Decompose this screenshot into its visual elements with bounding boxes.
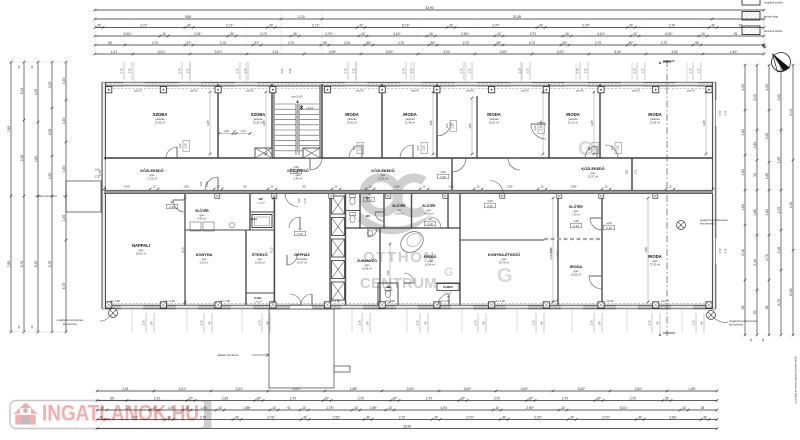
crossed boxes flanking stair <box>255 148 272 158</box>
svg-text:2,90⁵: 2,90⁵ <box>461 32 469 36</box>
svg-text:10: 10 <box>477 185 480 189</box>
wall pillars top <box>106 87 112 93</box>
svg-text:1,80: 1,80 <box>753 142 757 149</box>
svg-text:pm|75: pm|75 <box>632 88 640 92</box>
wc toilets <box>350 197 355 204</box>
svg-text:2,70: 2,70 <box>719 248 722 253</box>
svg-text:10: 10 <box>162 32 166 36</box>
svg-text:1,40: 1,40 <box>223 129 229 133</box>
svg-text:pm|75: pm|75 <box>134 88 142 92</box>
svg-text:pm|75: pm|75 <box>687 88 695 92</box>
svg-text:WC: WC <box>259 197 264 201</box>
svg-text:7,65: 7,65 <box>7 126 11 133</box>
right wall windows <box>712 100 716 126</box>
logo gray bar <box>204 401 212 429</box>
svg-text:4,03⁵: 4,03⁵ <box>124 185 130 189</box>
ingatlanok.hu logo box <box>10 401 206 429</box>
svg-text:2,70: 2,70 <box>154 396 161 400</box>
svg-text:3,00⁵: 3,00⁵ <box>521 387 529 391</box>
svg-text:4,30: 4,30 <box>765 84 769 91</box>
svg-text:3,01⁵: 3,01⁵ <box>179 387 187 391</box>
svg-text:6,75: 6,75 <box>777 299 781 306</box>
doors small rooms <box>289 217 300 228</box>
svg-text:10: 10 <box>565 32 569 36</box>
svg-text:30: 30 <box>711 23 715 27</box>
svg-text:1,00: 1,00 <box>487 199 493 203</box>
svg-text:30⁵: 30⁵ <box>431 41 437 45</box>
svg-text:fém kémény: fém kémény <box>729 323 744 327</box>
svg-text:pm 1,60: pm 1,60 <box>385 299 395 303</box>
svg-text:30: 30 <box>629 23 633 27</box>
svg-text:G: G <box>578 138 594 160</box>
svg-text:2,70: 2,70 <box>200 320 204 326</box>
svg-text:22,62 m²: 22,62 m² <box>489 121 499 125</box>
svg-text:30: 30 <box>638 415 642 419</box>
svg-text:2,70: 2,70 <box>258 320 262 326</box>
svg-text:2,70: 2,70 <box>426 396 433 400</box>
svg-text:30: 30 <box>230 32 234 36</box>
svg-text:2,70⁵: 2,70⁵ <box>582 23 590 27</box>
svg-text:ELŐTÉR: ELŐTÉR <box>569 204 583 209</box>
svg-text:1,75: 1,75 <box>352 68 356 74</box>
svg-text:37,53 m²: 37,53 m² <box>650 263 660 267</box>
svg-text:2,16: 2,16 <box>753 259 757 266</box>
svg-text:10: 10 <box>185 406 189 410</box>
svg-text:2,75⁵: 2,75⁵ <box>267 415 275 419</box>
svg-text:3,85: 3,85 <box>262 120 266 126</box>
wall partitions top band <box>217 84 219 158</box>
svg-text:22,95 m²: 22,95 m² <box>155 121 165 125</box>
svg-text:3,85: 3,85 <box>702 120 706 126</box>
svg-text:4,30: 4,30 <box>741 84 745 91</box>
sinks <box>229 222 234 227</box>
entrance double door bottom <box>290 305 312 309</box>
svg-text:1,80: 1,80 <box>62 118 66 125</box>
svg-text:WC: WC <box>387 285 392 289</box>
svg-text:2,10: 2,10 <box>185 143 188 148</box>
svg-text:1,38 m²: 1,38 m² <box>385 290 393 293</box>
svg-text:30: 30 <box>303 415 307 419</box>
svg-text:2,20: 2,20 <box>344 41 351 45</box>
svg-text:INGATLANOK.HU: INGATLANOK.HU <box>42 401 199 426</box>
svg-text:ÉTKEZŐ: ÉTKEZŐ <box>252 252 267 257</box>
svg-text:2,70: 2,70 <box>463 41 470 45</box>
svg-text:25: 25 <box>701 406 705 410</box>
svg-text:pm|75: pm|75 <box>551 299 559 303</box>
svg-text:FÜRDŐ: FÜRDŐ <box>424 254 437 259</box>
svg-text:2,70: 2,70 <box>358 320 362 326</box>
doors corridor/lower <box>173 200 185 212</box>
svg-text:2,70: 2,70 <box>494 396 501 400</box>
svg-text:KAM.: KAM. <box>254 296 261 300</box>
svg-text:6,01¹: 6,01¹ <box>620 406 628 410</box>
svg-text:55⁵: 55⁵ <box>367 41 373 45</box>
svg-text:2,70: 2,70 <box>557 251 560 256</box>
svg-text:SZOBA: SZOBA <box>251 112 266 117</box>
svg-text:KÖZLEKEDŐ: KÖZLEKEDŐ <box>140 168 163 173</box>
corridor divider wall <box>451 158 453 190</box>
svg-text:2,10: 2,10 <box>452 123 455 128</box>
svg-text:2,79: 2,79 <box>460 68 464 74</box>
svg-text:2,70: 2,70 <box>474 320 478 326</box>
svg-text:2,70: 2,70 <box>777 207 781 214</box>
svg-text:1,36 m²: 1,36 m² <box>254 301 262 304</box>
svg-text:pm|80: pm|80 <box>100 169 102 176</box>
corridor wall dim row <box>103 188 106 191</box>
svg-text:2,70: 2,70 <box>200 415 207 419</box>
svg-text:12,65: 12,65 <box>789 288 793 296</box>
interior room dims <box>209 92 211 154</box>
svg-text:1,00: 1,00 <box>293 165 299 169</box>
svg-text:1,75: 1,75 <box>584 68 588 74</box>
svg-text:1,80: 1,80 <box>765 173 769 180</box>
svg-text:10: 10 <box>271 185 274 189</box>
corridor top wall <box>104 157 713 159</box>
svg-text:1,00: 1,00 <box>606 221 612 225</box>
svg-text:30⁵: 30⁵ <box>629 41 635 45</box>
svg-text:1,90⁵: 1,90⁵ <box>688 387 696 391</box>
svg-text:1,00: 1,00 <box>417 145 420 150</box>
svg-text:1,90⁵: 1,90⁵ <box>730 50 738 54</box>
svg-text:IRODA: IRODA <box>570 265 582 269</box>
svg-text:30⁵: 30⁵ <box>497 41 503 45</box>
svg-text:55: 55 <box>108 41 112 45</box>
svg-text:10,42 m²: 10,42 m² <box>347 121 357 125</box>
svg-text:4,35 m²: 4,35 m² <box>425 212 434 216</box>
washer boxes <box>190 222 201 231</box>
svg-text:10: 10 <box>423 185 426 189</box>
svg-text:22,95 m²: 22,95 m² <box>650 121 660 125</box>
svg-text:1,50 m²: 1,50 m² <box>257 202 265 205</box>
top dimension rows <box>95 9 764 11</box>
section line A-A <box>666 60 668 336</box>
svg-text:a szolgál tervieket egyedi kez: a szolgál tervieket egyedi kezelendőek <box>794 355 798 403</box>
svg-text:10,04 m²: 10,04 m² <box>425 263 435 267</box>
svg-text:30,79 m²: 30,79 m² <box>499 261 509 265</box>
svg-text:2,10: 2,10 <box>440 175 446 179</box>
svg-text:33,90: 33,90 <box>403 424 411 428</box>
svg-text:2,70: 2,70 <box>399 415 406 419</box>
svg-text:2,70: 2,70 <box>590 320 594 326</box>
svg-text:2,10: 2,10 <box>573 224 579 228</box>
svg-text:2,71⁵: 2,71⁵ <box>131 415 139 419</box>
svg-text:5,70: 5,70 <box>48 261 52 268</box>
svg-text:3,03 m²: 3,03 m² <box>395 212 404 216</box>
svg-text:3,01⁵: 3,01⁵ <box>236 387 244 391</box>
svg-text:2,71⁵: 2,71⁵ <box>226 23 234 27</box>
svg-text:1,41 m²: 1,41 m² <box>444 292 452 295</box>
svg-text:10: 10 <box>633 32 637 36</box>
svg-text:2,79: 2,79 <box>236 68 240 74</box>
svg-text:3,85: 3,85 <box>539 120 543 126</box>
svg-text:3,00⁵: 3,00⁵ <box>578 387 586 391</box>
svg-text:17,25 m²: 17,25 m² <box>147 177 157 181</box>
svg-text:2,20: 2,20 <box>298 15 305 19</box>
svg-text:ZUH.: ZUH. <box>251 217 258 221</box>
svg-text:37⁵: 37⁵ <box>255 41 261 45</box>
svg-text:11,13 m²: 11,13 m² <box>568 121 578 125</box>
svg-text:fém kémény: fém kémény <box>63 322 78 326</box>
svg-text:1,00: 1,00 <box>440 170 446 174</box>
svg-text:3,01⁵: 3,01⁵ <box>215 50 223 54</box>
svg-text:3,00⁵: 3,00⁵ <box>464 387 472 391</box>
building outer wall left <box>102 82 105 308</box>
svg-text:6,75: 6,75 <box>62 283 66 290</box>
svg-text:3,01: 3,01 <box>272 50 279 54</box>
svg-text:30: 30 <box>434 415 438 419</box>
svg-text:30⁵: 30⁵ <box>461 396 467 400</box>
svg-text:7,65: 7,65 <box>7 261 11 268</box>
svg-text:3,00⁵: 3,00⁵ <box>500 50 508 54</box>
svg-text:5,10: 5,10 <box>20 88 24 95</box>
svg-text:2,70: 2,70 <box>669 23 676 27</box>
svg-text:90: 90 <box>298 227 302 231</box>
shaft crossed boxes <box>332 196 345 214</box>
svg-text:pm|75: pm|75 <box>661 299 669 303</box>
svg-text:3,00⁵: 3,00⁵ <box>407 387 415 391</box>
legend box 3 tervezett terulet <box>742 26 760 35</box>
svg-text:10: 10 <box>669 185 672 189</box>
svg-text:pm|75: pm|75 <box>190 88 198 92</box>
svg-text:10: 10 <box>388 406 392 410</box>
svg-text:1,00: 1,00 <box>534 125 537 130</box>
svg-text:pm 1,60: pm 1,60 <box>440 299 450 303</box>
left wall window <box>102 160 106 186</box>
svg-text:4,30: 4,30 <box>753 94 757 101</box>
svg-text:6,01⁵: 6,01⁵ <box>665 32 673 36</box>
svg-text:KAMRA: KAMRA <box>443 285 453 289</box>
svg-text:1,77: 1,77 <box>125 406 132 410</box>
svg-text:IRODA: IRODA <box>487 112 501 117</box>
svg-text:1,00+0,85: 1,00+0,85 <box>550 248 553 260</box>
svg-text:előtető szerkezet: előtető szerkezet <box>217 353 238 357</box>
svg-text:4,93: 4,93 <box>448 185 454 189</box>
svg-text:30: 30 <box>703 415 707 419</box>
svg-text:SZOBA: SZOBA <box>153 112 168 117</box>
svg-text:pm|75: pm|75 <box>246 88 254 92</box>
svg-text:1,08⁵: 1,08⁵ <box>369 406 377 410</box>
svg-text:10,55 m²: 10,55 m² <box>571 273 581 277</box>
svg-text:GÉPHÁZ: GÉPHÁZ <box>294 252 311 257</box>
svg-text:3,00⁵: 3,00⁵ <box>635 387 643 391</box>
svg-text:pm 0,00: pm 0,00 <box>292 95 303 99</box>
bathtub <box>397 227 428 256</box>
svg-text:KÖZLEKEDŐ: KÖZLEKEDŐ <box>581 166 604 171</box>
svg-text:37⁵: 37⁵ <box>187 41 193 45</box>
svg-text:2,70: 2,70 <box>648 320 652 326</box>
svg-text:2,90⁵: 2,90⁵ <box>526 406 534 410</box>
svg-text:2,10: 2,10 <box>487 204 493 208</box>
svg-text:2,69: 2,69 <box>222 396 229 400</box>
svg-text:55: 55 <box>695 41 699 45</box>
svg-text:2,70: 2,70 <box>358 396 365 400</box>
window dims above wall <box>123 62 125 80</box>
svg-text:2,10: 2,10 <box>359 145 362 150</box>
svg-text:10: 10 <box>152 406 156 410</box>
svg-text:G: G <box>444 265 453 279</box>
svg-text:4,30: 4,30 <box>34 89 38 96</box>
svg-text:14,46 m²: 14,46 m² <box>362 267 372 271</box>
svg-text:6,02⁵: 6,02⁵ <box>124 32 132 36</box>
svg-text:90: 90 <box>428 217 432 221</box>
svg-text:4,30 m²: 4,30 m² <box>198 217 207 221</box>
svg-text:3,00⁵: 3,00⁵ <box>386 50 394 54</box>
svg-text:10: 10 <box>369 185 372 189</box>
svg-text:2,70⁵: 2,70⁵ <box>466 415 474 419</box>
svg-text:10: 10 <box>153 185 156 189</box>
svg-text:1,75: 1,75 <box>468 68 472 74</box>
svg-text:1,75: 1,75 <box>410 68 414 74</box>
svg-text:2,70: 2,70 <box>692 320 696 326</box>
svg-text:33,90: 33,90 <box>425 6 433 10</box>
planned wall dashed <box>544 238 602 240</box>
svg-text:fém kémény: fém kémény <box>700 222 715 226</box>
svg-text:2,70: 2,70 <box>220 41 227 45</box>
svg-text:2,70: 2,70 <box>630 396 637 400</box>
svg-text:1,75: 1,75 <box>725 248 728 253</box>
svg-text:1,80: 1,80 <box>765 209 769 216</box>
svg-text:30⁵: 30⁵ <box>257 396 263 400</box>
svg-text:meglévő konzolómentes: meglévő konzolómentes <box>729 319 758 323</box>
svg-text:2,79: 2,79 <box>178 68 182 74</box>
svg-text:37⁵: 37⁵ <box>189 396 195 400</box>
svg-text:30: 30 <box>167 415 171 419</box>
svg-text:3,02⁵: 3,02⁵ <box>557 50 565 54</box>
svg-text:30: 30 <box>235 415 239 419</box>
svg-text:3,10⁵: 3,10⁵ <box>393 32 401 36</box>
svg-text:2,10: 2,10 <box>169 205 175 209</box>
svg-text:3,01⁵: 3,01⁵ <box>293 387 301 391</box>
building outer wall bottom <box>102 305 716 309</box>
svg-text:1,60: 1,60 <box>741 169 745 176</box>
svg-text:2,79: 2,79 <box>344 68 348 74</box>
svg-text:G: G <box>497 265 513 287</box>
svg-text:30: 30 <box>449 23 453 27</box>
corridor wall pillars <box>215 194 220 199</box>
svg-text:3,00: 3,00 <box>671 50 678 54</box>
svg-text:előtető szerkezet: előtető szerkezet <box>35 194 56 198</box>
staircase <box>274 86 320 158</box>
svg-text:1,80: 1,80 <box>777 157 781 164</box>
svg-text:30: 30 <box>570 415 574 419</box>
svg-text:6,44 m²: 6,44 m² <box>294 177 303 181</box>
svg-text:1,86: 1,86 <box>753 209 757 216</box>
svg-text:2,70: 2,70 <box>595 41 602 45</box>
svg-text:2,70: 2,70 <box>532 320 536 326</box>
svg-text:tervezett terület: tervezett terület <box>764 29 783 33</box>
svg-text:2,40⁵: 2,40⁵ <box>394 185 400 189</box>
svg-text:1,00: 1,00 <box>573 219 579 223</box>
svg-text:1,00: 1,00 <box>588 145 591 150</box>
bottom porch eloteto <box>269 309 334 388</box>
svg-text:55: 55 <box>323 41 327 45</box>
svg-text:3,08⁵: 3,08⁵ <box>329 50 337 54</box>
svg-text:1,80: 1,80 <box>626 169 629 174</box>
svg-text:meglévő szerke: meglévő szerke <box>764 1 783 5</box>
svg-text:10,26 m²: 10,26 m² <box>253 121 263 125</box>
window openings top wall <box>123 82 145 86</box>
svg-text:pm 1,60: pm 1,60 <box>495 299 505 303</box>
svg-text:pm 1,60: pm 1,60 <box>330 299 340 303</box>
svg-text:2,98⁵: 2,98⁵ <box>350 387 358 391</box>
svg-text:2,00: 2,00 <box>48 129 52 136</box>
svg-text:10: 10 <box>497 32 501 36</box>
svg-text:3,00: 3,00 <box>443 50 450 54</box>
svg-text:3,68: 3,68 <box>644 247 648 253</box>
svg-text:ELŐTÉR: ELŐTÉR <box>393 203 407 208</box>
svg-text:11,96 m²: 11,96 m² <box>405 121 415 125</box>
svg-text:8,72⁵: 8,72⁵ <box>402 23 410 27</box>
building outer wall top <box>102 82 716 86</box>
svg-text:6,30: 6,30 <box>34 261 38 268</box>
svg-text:pm 1,60: pm 1,60 <box>220 299 230 303</box>
svg-text:1,00: 1,00 <box>200 181 203 186</box>
svg-text:pm|75: pm|75 <box>466 88 474 92</box>
svg-text:2,70: 2,70 <box>530 32 537 36</box>
svg-text:30: 30 <box>753 173 757 177</box>
svg-text:30: 30 <box>99 415 103 419</box>
svg-text:2,16: 2,16 <box>741 249 745 256</box>
svg-text:termelt talaj: termelt talaj <box>764 15 778 19</box>
svg-text:2,79: 2,79 <box>633 68 637 74</box>
svg-text:2,10: 2,10 <box>366 198 372 202</box>
svg-text:10: 10 <box>100 406 104 410</box>
svg-text:1,80: 1,80 <box>741 204 745 211</box>
svg-text:2,70⁵: 2,70⁵ <box>534 415 542 419</box>
svg-text:2,10: 2,10 <box>617 145 620 150</box>
svg-text:4,93: 4,93 <box>440 406 447 410</box>
svg-text:pm|75: pm|75 <box>411 88 419 92</box>
svg-text:10: 10 <box>354 406 358 410</box>
svg-text:55: 55 <box>665 396 669 400</box>
left dimension columns <box>10 62 12 332</box>
svg-text:KONYHA-ÉTKEZŐ: KONYHA-ÉTKEZŐ <box>488 252 520 257</box>
svg-text:30: 30 <box>366 415 370 419</box>
svg-text:ZUHANYZÓ: ZUHANYZÓ <box>357 258 377 263</box>
svg-text:1,60: 1,60 <box>62 166 66 173</box>
svg-text:IRODA: IRODA <box>648 112 662 117</box>
wall partitions bottom band <box>184 194 186 306</box>
svg-text:25: 25 <box>734 32 738 36</box>
svg-text:2,10: 2,10 <box>427 222 433 226</box>
svg-text:21,85: 21,85 <box>513 15 521 19</box>
svg-text:6,75: 6,75 <box>181 247 185 253</box>
svg-text:5,89⁵: 5,89⁵ <box>571 185 577 189</box>
svg-text:3,00: 3,00 <box>614 50 621 54</box>
svg-text:2,79: 2,79 <box>120 68 124 74</box>
svg-text:2,70: 2,70 <box>290 396 297 400</box>
svg-text:meglévő konzolómentes: meglévő konzolómentes <box>700 218 729 222</box>
chimney bottom left <box>109 309 118 318</box>
small horizontal dims inside <box>219 133 250 135</box>
svg-text:ELŐTÉR: ELŐTÉR <box>423 203 437 208</box>
svg-text:30: 30 <box>539 23 543 27</box>
svg-text:10: 10 <box>335 185 338 189</box>
svg-text:1,75: 1,75 <box>186 68 190 74</box>
svg-text:3,30: 3,30 <box>288 68 292 74</box>
svg-text:2,70: 2,70 <box>288 41 295 45</box>
svg-text:1,75: 1,75 <box>697 68 701 74</box>
svg-text:25: 25 <box>97 23 101 27</box>
svg-text:36: 36 <box>765 306 769 310</box>
svg-text:2,79: 2,79 <box>689 68 693 74</box>
svg-text:2,20: 2,20 <box>280 68 284 74</box>
svg-text:16,47 m²: 16,47 m² <box>297 261 307 265</box>
svg-text:1,05: 1,05 <box>167 406 174 410</box>
svg-text:1,00: 1,00 <box>179 143 182 148</box>
svg-text:30⁵: 30⁵ <box>563 41 569 45</box>
svg-text:3,01⁵: 3,01⁵ <box>158 50 166 54</box>
